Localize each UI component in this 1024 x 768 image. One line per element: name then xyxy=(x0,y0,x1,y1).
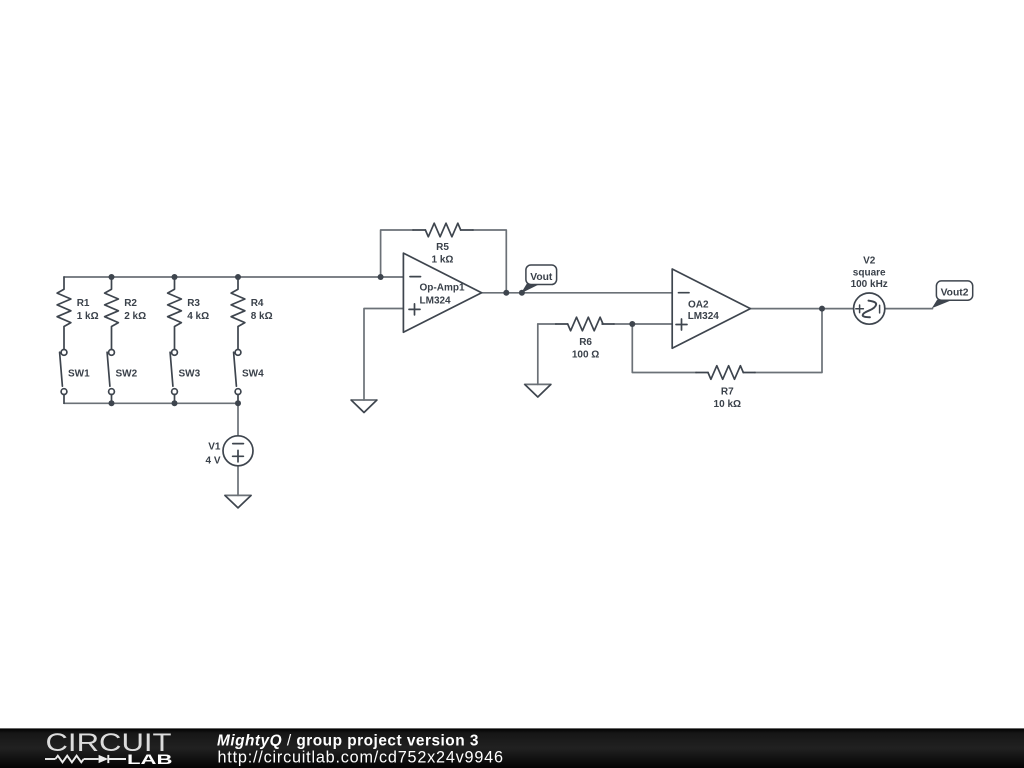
svg-text:8 kΩ: 8 kΩ xyxy=(251,311,273,322)
svg-text:R7: R7 xyxy=(721,387,734,398)
svg-text:SW3: SW3 xyxy=(179,368,201,379)
op-amp U2 OA2 xyxy=(672,269,750,348)
wire R6 right to op-amp2 plus xyxy=(614,323,672,325)
resistor R4 xyxy=(231,277,245,349)
wire op-amp2 output xyxy=(750,308,853,310)
svg-text:Vout: Vout xyxy=(530,272,553,283)
svg-text:SW1: SW1 xyxy=(68,368,90,379)
wire op-amp1 output to OA2 minus xyxy=(482,292,673,294)
switch SW2 xyxy=(107,350,114,404)
op-amp U1 Op-Amp1 xyxy=(403,253,481,332)
svg-text:R5: R5 xyxy=(436,242,449,253)
switch SW4 xyxy=(234,350,241,404)
wire feedback right xyxy=(473,230,506,293)
svg-text:1 kΩ: 1 kΩ xyxy=(432,255,454,266)
resistor R6 xyxy=(568,317,603,331)
logo wire with resistor and diode xyxy=(45,755,126,763)
wire R6 left to ground xyxy=(537,324,539,384)
ground (V1) xyxy=(225,496,250,508)
wire R6 left lead xyxy=(538,323,556,325)
resistor R6 leads xyxy=(556,323,614,325)
wire V1 bottom xyxy=(237,466,239,496)
svg-text:LM324: LM324 xyxy=(688,311,720,322)
wire R7 right branch xyxy=(755,309,822,373)
switch SW3 xyxy=(170,350,177,404)
footer bar xyxy=(0,728,1024,768)
net flag Vout2 xyxy=(932,281,973,308)
svg-text:R4: R4 xyxy=(251,298,264,309)
svg-text:SW2: SW2 xyxy=(116,368,138,379)
ground bar (op-amp1 plus) xyxy=(351,399,377,401)
svg-text:100 kHz: 100 kHz xyxy=(851,279,888,290)
schematic labels xyxy=(68,242,888,466)
node top rail j3 xyxy=(235,274,241,280)
net flag Vout xyxy=(521,265,557,293)
node R7 tap xyxy=(629,321,635,327)
svg-text:R2: R2 xyxy=(124,298,137,309)
svg-text:SW4: SW4 xyxy=(242,368,264,379)
svg-text:Op-Amp1: Op-Amp1 xyxy=(420,283,465,294)
svg-text:OA2: OA2 xyxy=(688,300,709,311)
svg-text:V2: V2 xyxy=(863,256,876,267)
node top rail j1 xyxy=(109,274,115,280)
resistor R5 leads xyxy=(413,229,473,231)
resistor R3 xyxy=(168,277,182,349)
resistor R7 leads xyxy=(696,372,755,374)
resistor R1 xyxy=(57,277,71,349)
node bottom rail j1 xyxy=(109,400,115,406)
resistor R7 xyxy=(708,366,743,380)
node Vout anchor xyxy=(519,290,525,296)
svg-text:R3: R3 xyxy=(187,298,200,309)
node top rail j2 xyxy=(172,274,178,280)
wire bottom rail xyxy=(64,402,238,404)
svg-text:http://circuitlab.com/cd752x24: http://circuitlab.com/cd752x24v9946 xyxy=(218,749,504,767)
svg-text:LAB: LAB xyxy=(127,751,173,767)
resistor R2 xyxy=(105,277,119,349)
ground (op-amp1 plus) xyxy=(352,400,377,412)
svg-text:V1: V1 xyxy=(208,441,221,452)
svg-text:R6: R6 xyxy=(579,337,592,348)
wire feedback left xyxy=(381,230,413,277)
svg-text:10 kΩ: 10 kΩ xyxy=(714,399,741,410)
wire top rail xyxy=(64,276,403,278)
wire V1 top xyxy=(237,403,239,436)
voltage source V2 xyxy=(854,293,885,324)
switch SW1 xyxy=(60,350,67,404)
ground bar (R6) xyxy=(525,383,551,385)
svg-text:2 kΩ: 2 kΩ xyxy=(124,311,146,322)
svg-text:R1: R1 xyxy=(77,298,90,309)
wire R7 left branch xyxy=(632,324,696,373)
node bottom rail j2 xyxy=(172,400,178,406)
node bottom rail j3 xyxy=(235,400,241,406)
wire op-amp1 plus to ground xyxy=(364,309,403,401)
svg-text:4 kΩ: 4 kΩ xyxy=(187,311,209,322)
svg-text:LM324: LM324 xyxy=(420,296,452,307)
junction dots xyxy=(109,274,826,406)
resistor R5 xyxy=(425,223,460,237)
wire V2 to Vout2 xyxy=(885,308,933,310)
svg-text:100 Ω: 100 Ω xyxy=(572,350,599,361)
svg-text:MightyQ / group project versio: MightyQ / group project version 3 xyxy=(217,732,479,749)
svg-text:1 kΩ: 1 kΩ xyxy=(77,311,99,322)
node output2 tap xyxy=(819,306,825,312)
ground (R6) xyxy=(525,385,550,397)
node feedback tap xyxy=(378,274,384,280)
ground bar (V1) xyxy=(225,494,251,496)
node feedback to output xyxy=(503,290,509,296)
svg-text:4 V: 4 V xyxy=(205,455,220,466)
svg-text:square: square xyxy=(853,267,886,278)
svg-text:Vout2: Vout2 xyxy=(941,287,969,298)
voltage source V1 xyxy=(223,436,253,466)
